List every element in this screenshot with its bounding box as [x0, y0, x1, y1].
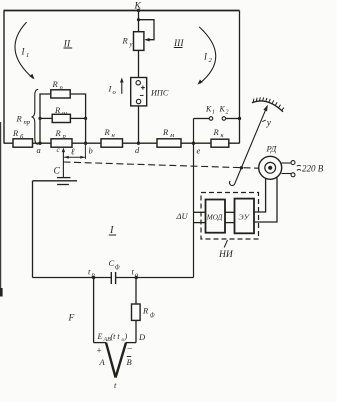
- svg-text:F: F: [68, 314, 75, 324]
- svg-text:D: D: [138, 332, 146, 342]
- svg-text:р: р: [62, 133, 67, 140]
- svg-text:2: 2: [226, 110, 229, 116]
- svg-text:РД: РД: [266, 144, 277, 154]
- svg-text:R: R: [104, 127, 111, 137]
- svg-text:a: a: [37, 145, 41, 155]
- svg-text:ф: ф: [115, 263, 120, 270]
- block MOD: [206, 200, 226, 233]
- switch contact K2: [222, 117, 226, 121]
- svg-text:НИ: НИ: [218, 250, 234, 260]
- battery box U IPS: [131, 78, 147, 106]
- svg-text:1: 1: [26, 52, 29, 59]
- box I right edge from e down: [193, 119, 195, 278]
- svg-text:+: +: [97, 346, 102, 356]
- svg-text:R: R: [52, 79, 59, 89]
- wire: delta-U upper stub to MOD: [194, 211, 206, 213]
- thermocouple left jog: [94, 342, 106, 344]
- svg-text:к: к: [221, 132, 225, 139]
- svg-text:у: у: [129, 41, 133, 48]
- svg-text:2: 2: [209, 57, 213, 64]
- resistor Rn: [101, 139, 123, 147]
- svg-text:ℓ: ℓ: [71, 147, 75, 157]
- resistor Rp (on line): [51, 139, 72, 147]
- svg-text:e: e: [197, 145, 201, 155]
- svg-text:A: A: [99, 357, 106, 367]
- resistor Rm: [157, 139, 181, 147]
- svg-text:II: II: [63, 39, 71, 49]
- AC sign: [297, 165, 301, 170]
- node e: [192, 142, 195, 145]
- wire: left riser of parallel group at a: [40, 94, 51, 143]
- wire: Ru to IPS: [138, 50, 140, 77]
- svg-text:III: III: [173, 39, 184, 49]
- svg-text:C: C: [54, 167, 61, 177]
- resistor Rb: [13, 139, 33, 147]
- svg-text:R: R: [213, 127, 220, 137]
- thermocouple right jog: [126, 342, 136, 344]
- wire: outer loop right edge: [239, 11, 241, 144]
- IPS terminal bottom: [136, 99, 140, 103]
- tick below b: [84, 145, 86, 159]
- motor RD inner circle: [265, 162, 276, 173]
- needle arrowhead: [263, 105, 267, 112]
- underline of III: [174, 47, 183, 49]
- resistor Rpi top parallel: [51, 90, 70, 98]
- wiper c arrow: [62, 151, 64, 178]
- wire: main horizontal line a-b-d-e: [4, 142, 240, 144]
- svg-text:R: R: [162, 127, 169, 137]
- svg-text:B: B: [127, 357, 132, 367]
- svg-text:R: R: [55, 128, 62, 138]
- motor RD center dot: [268, 166, 272, 170]
- capacitor Cf plates: [111, 272, 115, 284]
- svg-text:R: R: [16, 114, 23, 124]
- underline of II: [64, 47, 73, 49]
- wire Rf down: [135, 320, 137, 342]
- needle pointer line: [235, 106, 267, 183]
- svg-text:ш: ш: [62, 110, 67, 117]
- svg-text:I: I: [109, 225, 114, 236]
- wire: K down to Ru: [138, 11, 140, 32]
- svg-text:н: н: [112, 132, 116, 139]
- junction Rsh left: [38, 117, 41, 120]
- scale ticks: [253, 97, 284, 110]
- svg-text:I: I: [21, 47, 26, 57]
- svg-text:R: R: [142, 306, 149, 316]
- IPS terminal top: [136, 81, 140, 85]
- svg-text:K: K: [205, 105, 212, 114]
- node to: [135, 276, 138, 279]
- scale arc: [252, 101, 283, 112]
- svg-text:ИПС: ИПС: [150, 89, 169, 98]
- svg-text:E: E: [97, 332, 103, 341]
- mechanical linkage dash line c to RD: [63, 162, 258, 168]
- svg-text:пр: пр: [24, 119, 31, 126]
- resistor Ru: [134, 32, 144, 51]
- NI label tick: [224, 240, 227, 248]
- mains terminal upper: [291, 161, 295, 165]
- node a: [38, 142, 41, 145]
- dimension line l: [64, 156, 85, 158]
- svg-text:С: С: [109, 258, 115, 268]
- svg-text:R: R: [122, 36, 129, 46]
- svg-text:1: 1: [212, 110, 215, 116]
- box I bottom edge left part: [33, 277, 112, 279]
- box I bottom edge right part: [116, 277, 194, 279]
- svg-text:ΔU: ΔU: [176, 211, 189, 221]
- thermocouple electrode A: [106, 343, 116, 378]
- wire: Rsh right lead: [70, 117, 85, 119]
- switch contact K1: [209, 117, 213, 121]
- svg-text:K: K: [219, 105, 226, 114]
- junction below K: [137, 18, 140, 21]
- svg-text:МОД: МОД: [206, 213, 223, 221]
- motor RD outer circle: [259, 156, 282, 179]
- wire: right riser of parallel group at b: [70, 94, 85, 143]
- capacitor C bottom plate: [57, 184, 69, 186]
- svg-text:м: м: [169, 132, 175, 139]
- wire: outer loop left edge: [3, 11, 5, 144]
- current arrow I1: [15, 22, 33, 78]
- switch wire from K2: [226, 118, 240, 120]
- svg-text:о: о: [113, 89, 117, 96]
- wire to mains terminal upper: [282, 162, 292, 164]
- underline of I: [109, 234, 116, 236]
- thermocouple wire F from tp: [93, 278, 95, 343]
- resistor Rf: [132, 304, 141, 320]
- svg-text:ф: ф: [150, 312, 155, 319]
- wire: outer loop top edge: [4, 10, 240, 12]
- wire: Rsh left lead: [40, 117, 52, 119]
- svg-text:R: R: [54, 105, 61, 115]
- wire: MOD to EU upper: [225, 211, 235, 213]
- node d: [137, 142, 140, 145]
- junction Rsh right: [84, 117, 87, 120]
- wire: EU output lower to RD: [254, 178, 277, 223]
- capacitor C middle plate and wire to box I: [33, 180, 78, 182]
- wire: EU output upper to RD: [254, 179, 266, 213]
- node b: [84, 142, 87, 145]
- svg-text:I: I: [203, 52, 208, 62]
- svg-text:): ): [124, 332, 128, 341]
- arrow Io: [121, 80, 123, 94]
- needle end hook: [229, 181, 234, 186]
- wire to mains terminal lower: [282, 173, 292, 175]
- scan artifact left edge: [0, 122, 2, 289]
- svg-text:–: –: [127, 343, 133, 353]
- node tp: [92, 276, 95, 279]
- svg-text:р: р: [91, 272, 96, 279]
- thermocouple electrode B: [116, 343, 126, 378]
- IPS minus sign: [140, 94, 144, 96]
- resistor Rsh middle parallel: [52, 114, 70, 122]
- B overbar: [127, 356, 131, 358]
- node K: [137, 9, 140, 12]
- needle pivot dot: [240, 166, 243, 169]
- wire: delta-U lower stub to MOD: [194, 222, 206, 224]
- capacitor C top plate: [57, 177, 70, 179]
- brace Rpr: [32, 89, 39, 144]
- wire: IPS to node d: [138, 106, 140, 143]
- box I left edge: [32, 181, 34, 278]
- wire from to down to Rf: [135, 278, 137, 305]
- resistor Rk: [211, 139, 229, 147]
- y label tick: [262, 120, 266, 122]
- switch wire to K1: [194, 118, 210, 120]
- junction on right edge: [238, 117, 241, 120]
- svg-text:d: d: [135, 145, 140, 155]
- dashed box NI: [201, 193, 259, 240]
- svg-text:b: b: [89, 145, 93, 155]
- wire: Ru feedback tap: [139, 20, 155, 40]
- current arrow I2: [199, 27, 216, 83]
- svg-text:у: у: [266, 119, 272, 129]
- svg-text:t: t: [114, 380, 117, 390]
- IPS plus sign: [141, 86, 145, 90]
- mains terminal lower: [291, 173, 295, 177]
- svg-text:R: R: [12, 128, 19, 138]
- svg-text:ЭУ: ЭУ: [239, 212, 251, 221]
- svg-text:K: K: [134, 2, 142, 12]
- svg-text:220 В: 220 В: [302, 164, 324, 174]
- block EU: [235, 199, 255, 234]
- svg-text:(t t: (t t: [111, 332, 121, 341]
- wire: MOD to EU lower: [225, 222, 235, 224]
